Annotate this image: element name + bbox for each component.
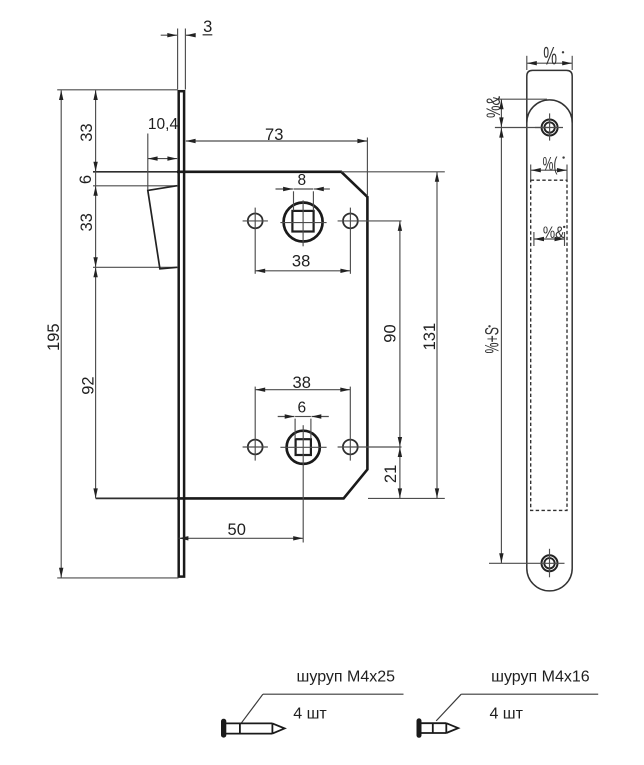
right screw M4x16 drawing: [417, 719, 458, 737]
svg-text:33: 33: [78, 213, 96, 231]
right screw label underline: [461, 693, 598, 695]
lower left screw hole centerlines: [243, 446, 268, 448]
svg-text:%(: %(: [543, 154, 558, 176]
svg-text:4 шт: 4 шт: [293, 706, 327, 723]
upper right screw hole circle: [343, 214, 358, 229]
dim 90 line: [399, 221, 401, 447]
svg-text:%: %: [543, 42, 557, 70]
svg-text:38: 38: [292, 253, 310, 271]
svg-text:%&: %&: [483, 96, 505, 118]
svg-text:6: 6: [297, 400, 306, 417]
dim 73 line: [186, 140, 367, 142]
left screw leader line: [242, 694, 263, 723]
small top dim extension line: [498, 98, 548, 100]
svg-text:3: 3: [203, 18, 212, 36]
dim 3 arrows: [161, 34, 177, 36]
dim 38 upper line: [255, 270, 350, 272]
lower right screw hole centerlines: [338, 446, 402, 448]
dim 21 line: [399, 447, 401, 498]
svg-text:131: 131: [421, 323, 439, 351]
latch bolt side profile: [148, 186, 178, 269]
strike plate outline flat top rounded bottom: [527, 70, 572, 591]
cutout width dim line: [531, 169, 567, 171]
svg-text:33: 33: [78, 123, 96, 141]
svg-text:73: 73: [265, 126, 283, 144]
strike plate width dim extension lines: [526, 56, 528, 70]
svg-text:90: 90: [381, 324, 399, 342]
svg-text:шуруп М4х25: шуруп М4х25: [297, 668, 396, 685]
lower spindle centerlines: [302, 425, 304, 542]
dim 6 line with outside arrows: [295, 416, 311, 418]
svg-text:6: 6: [77, 175, 95, 184]
svg-text:92: 92: [80, 376, 98, 394]
top screw hole circles: [542, 120, 558, 136]
dim 131 line: [436, 172, 438, 498]
lock body horizontal line at 6/33 boundary: [93, 185, 177, 187]
small top dim line: [500, 100, 502, 128]
right screw leader line: [436, 694, 461, 721]
dim column 92 line: [95, 268, 97, 499]
lock body bottom edge (92 end) line: [96, 497, 178, 499]
dim 131 extension lines: [341, 171, 445, 173]
dim column 195 line: [60, 90, 62, 577]
upper spindle hole circle: [284, 203, 323, 242]
svg-text:4 шт: 4 шт: [489, 706, 523, 723]
svg-text:шуруп М4х16: шуруп М4х16: [491, 668, 590, 685]
cutout inner dim line: [534, 238, 564, 240]
lower right screw hole circle: [343, 440, 358, 455]
svg-text:8: 8: [297, 172, 306, 189]
svg-text:10,4: 10,4: [148, 116, 179, 133]
lock case front plate outline with chamfered right corners: [177, 172, 367, 499]
svg-text:%&: %&: [543, 224, 565, 242]
dim 50 line: [179, 537, 303, 539]
dim 38 lower line: [255, 389, 350, 391]
screw center leader line bottom: [489, 562, 535, 564]
dim 8 extension lines: [293, 191, 295, 210]
overall length dim line right view: [500, 128, 502, 563]
dim 8 line with outside arrows: [294, 188, 314, 190]
bottom screw hole crosshair: [549, 549, 551, 578]
upper spindle square hole: [292, 211, 313, 232]
lower left screw hole circle: [248, 440, 263, 455]
faceplate bottom extension line (195 end): [57, 577, 178, 579]
svg-text:195: 195: [45, 323, 63, 351]
dim 10,4 arrows: [148, 158, 177, 160]
top screw hole crosshair: [549, 113, 551, 140]
svg-text:21: 21: [382, 465, 400, 483]
strike plate width dim line: [527, 62, 572, 64]
strike plate dashed cutout rectangle: [531, 180, 567, 510]
svg-text:50: 50: [228, 521, 246, 539]
lock body horizontal line at 33/92 boundary: [93, 266, 177, 268]
left screw label underline: [263, 693, 404, 695]
lock body horizontal line at 33/6 boundary: [93, 171, 177, 173]
cutout width dim ticks: [530, 165, 532, 181]
screw center leader line top: [495, 127, 550, 129]
upper right screw hole centerlines: [338, 220, 402, 222]
lower spindle square hole: [296, 439, 311, 455]
lock body top edge line: [57, 89, 177, 91]
upper left screw hole circle: [248, 214, 263, 229]
bottom screw hole circles: [542, 555, 558, 571]
dim column 33 line: [95, 90, 97, 171]
left screw M4x25 drawing: [222, 720, 285, 737]
dim 73 extension line right: [366, 138, 368, 197]
dim 6 extension lines: [294, 419, 296, 439]
lower spindle hole circle: [287, 431, 320, 464]
latch extension line for dim 10,4: [147, 134, 149, 191]
svg-text:38: 38: [293, 374, 311, 392]
dim column second 33 line: [95, 186, 97, 267]
dim 6 segment line: [95, 172, 97, 186]
strike plate inner arc top: [527, 100, 572, 123]
cutout inner dim ticks: [533, 232, 535, 246]
upper left screw hole centerlines: [243, 220, 268, 222]
svg-text:%+S: %+S: [481, 327, 503, 354]
upper spindle centerlines: [302, 200, 304, 246]
faceplate extension lines above (for dim 3): [177, 29, 179, 90]
faceplate side view (vertical bar): [179, 91, 184, 576]
